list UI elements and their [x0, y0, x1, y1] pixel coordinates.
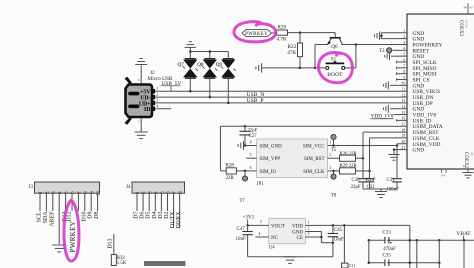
wire U4 NC pin4 stub	[256, 232, 269, 237]
annotation pink circle PWRKEY top	[234, 22, 276, 42]
label J2	[150, 70, 155, 76]
wire SIM_VCC row	[328, 144, 399, 147]
svg-text:R29 22R: R29 22R	[340, 164, 358, 169]
svg-text:PWRKEY: PWRKEY	[245, 31, 268, 37]
svg-text:3: 3	[156, 99, 158, 103]
wire pin6 SPI stub	[397, 61, 408, 64]
wire pin14 GND stub	[390, 108, 407, 110]
svg-text:SIM_VPP: SIM_VPP	[260, 157, 281, 162]
wire J2 shield top	[138, 66, 141, 84]
svg-text:T8: T8	[331, 193, 337, 198]
resistor R20	[277, 25, 288, 43]
capacitor C27	[240, 126, 258, 145]
svg-text:D8: D8	[94, 211, 100, 218]
component U4 box	[269, 218, 306, 244]
svg-text:Q6: Q6	[331, 44, 338, 50]
wire SIM_CLK pin3	[328, 170, 340, 173]
resistor R29	[340, 164, 358, 174]
ground connector bottom pin	[463, 173, 474, 178]
wire pin16 USB_ID stub	[397, 119, 408, 122]
wire PWRKEY to R20	[272, 32, 277, 34]
wire bottom rail left segment	[368, 261, 385, 264]
ground J2 bottom	[135, 132, 148, 139]
wire pin9 SPI stub	[397, 78, 408, 81]
wire U4 VOUT pin5	[248, 220, 269, 225]
capacitor C30	[351, 158, 376, 190]
capacitor C45	[328, 225, 344, 242]
U4 pin texts	[271, 224, 303, 241]
svg-text:4: 4	[250, 141, 252, 145]
svg-text:C30: C30	[352, 178, 361, 183]
wire pin10 GND stub	[390, 84, 407, 86]
wire pin7 SPI stub	[397, 66, 408, 69]
svg-text:J4: J4	[126, 185, 131, 190]
net label VBAT	[457, 231, 472, 240]
svg-text:8 4: 8 4	[441, 174, 445, 178]
svg-text:6: 6	[250, 166, 252, 170]
labels J4 pins	[134, 211, 183, 229]
svg-text:3: 3	[308, 232, 310, 236]
wire USB_N line	[152, 96, 407, 98]
wire SIM cap rail	[363, 188, 397, 190]
svg-text:BOOT: BOOT	[327, 72, 343, 78]
wire SIM_IO pin6	[236, 170, 256, 173]
wire pin2 GND stub	[381, 38, 407, 40]
svg-text:46: 46	[463, 6, 467, 10]
svg-text:T7: T7	[240, 199, 246, 204]
component U11 box	[342, 263, 356, 268]
wire U4 gnd route	[321, 241, 334, 256]
wire VBAT rail left segment	[368, 239, 385, 242]
svg-text:Q8: Q8	[197, 62, 204, 68]
svg-text:3: 3	[329, 166, 331, 170]
svg-text:U4: U4	[269, 246, 275, 251]
connector pin numbers 1-21	[401, 28, 405, 150]
svg-text:C27: C27	[249, 134, 258, 139]
svg-text:NC: NC	[271, 236, 279, 241]
JP1 pin numbers	[250, 141, 332, 170]
label COEX3 rotated	[458, 20, 469, 37]
wire Q7 to USB_VBUS	[189, 78, 192, 92]
capacitor C33	[383, 231, 396, 252]
svg-text:10uF: 10uF	[236, 237, 247, 242]
wires J4 pins	[137, 193, 180, 228]
port PWRKEY	[242, 30, 272, 37]
wire Q6 emitter	[314, 45, 328, 70]
connector J2 micro USB body	[125, 77, 156, 125]
svg-text:U11: U11	[349, 264, 355, 268]
wire Q8 to USB_N	[209, 78, 212, 98]
svg-text:SIM_VCC: SIM_VCC	[303, 144, 325, 149]
svg-text:R26 22R: R26 22R	[340, 152, 358, 157]
wire pin5 GND stub	[391, 55, 407, 57]
wire VDD to VBAT rail	[409, 225, 411, 268]
svg-text:2: 2	[308, 227, 310, 231]
svg-text:D5: D5	[146, 211, 152, 218]
ground pin21	[388, 150, 399, 161]
svg-text:SDA: SDA	[43, 211, 49, 224]
JP1 pin texts left	[260, 144, 283, 174]
ground U4	[283, 257, 296, 264]
wire R20 to Q6 base	[288, 31, 336, 34]
capacitor C31	[387, 146, 402, 193]
wire USB_P line	[152, 102, 407, 104]
transistor Q6	[327, 33, 342, 50]
svg-text:2: 2	[156, 93, 158, 97]
resistor R28	[226, 163, 237, 181]
wire U11 feed	[343, 225, 345, 263]
wire VBAT rail right	[387, 239, 474, 242]
svg-text:ID: ID	[144, 107, 150, 113]
wire TVS top rail	[189, 50, 228, 58]
svg-text:VOUT: VOUT	[271, 224, 285, 229]
net label VDD_1V8	[371, 114, 408, 120]
svg-text:D4: D4	[152, 211, 158, 218]
test point T2	[379, 48, 407, 54]
wire Q9 to USB_P	[227, 78, 230, 104]
svg-text:R20: R20	[278, 25, 287, 31]
svg-text:44: 44	[463, 164, 467, 168]
wire U4 GND pin2	[305, 232, 322, 243]
wires J3 pins	[40, 193, 98, 244]
svg-text:T2: T2	[379, 49, 385, 54]
diode Q7 TVS	[178, 59, 198, 78]
wire USIM_VDD pin20	[397, 144, 407, 146]
svg-text:100nF: 100nF	[387, 188, 400, 193]
svg-text:1: 1	[308, 220, 310, 224]
svg-text:470uF: 470uF	[383, 247, 396, 252]
svg-text:6: 6	[138, 78, 140, 82]
resistor R32	[111, 255, 126, 266]
switch S1 BOOT	[326, 56, 345, 78]
svg-text:PWRKEY: PWRKEY	[69, 221, 77, 252]
diode Q8 TVS	[197, 59, 217, 78]
wire U4 CE pin3	[305, 236, 321, 238]
annotation pink circle PWRKEY J3	[64, 201, 79, 262]
svg-text:5: 5	[250, 153, 252, 157]
svg-text:10uF: 10uF	[334, 238, 345, 243]
ground SIM_GND	[238, 141, 243, 150]
wire POWERKEY pin3	[342, 43, 408, 45]
wire bottom rail right	[387, 261, 441, 264]
svg-text:SIM_GND: SIM_GND	[260, 144, 283, 149]
svg-text:C31: C31	[387, 178, 396, 183]
wire D13 net	[108, 234, 114, 255]
net label USB_P	[247, 98, 264, 104]
connector JP1 SIM box	[257, 139, 328, 178]
svg-text:USB_P: USB_P	[247, 98, 264, 104]
svg-text:5: 5	[138, 120, 140, 124]
svg-text:R28: R28	[226, 163, 235, 168]
ground J2 top	[135, 59, 147, 65]
net label USB_N	[247, 92, 265, 98]
connector top pin stub	[463, 3, 473, 14]
resistor R26	[340, 152, 358, 161]
svg-text:SIM_IO: SIM_IO	[260, 170, 277, 175]
JP1 pin texts right	[303, 144, 325, 174]
svg-text:AREF: AREF	[49, 211, 55, 227]
svg-text:C47: C47	[237, 227, 246, 232]
capacitor C35	[383, 253, 392, 266]
svg-text:D12: D12	[67, 211, 73, 221]
svg-text:5: 5	[260, 220, 262, 224]
wire BOOT to collector	[345, 45, 356, 68]
wire U4 VDD pin1	[305, 224, 410, 227]
diode Q9 TVS	[216, 59, 236, 78]
svg-text:10 16: 10 16	[465, 20, 469, 28]
wire SIM_RST pin2	[328, 157, 340, 159]
test point T7	[240, 171, 248, 204]
svg-text:SIM_RST: SIM_RST	[304, 157, 325, 162]
svg-text:Q9: Q9	[216, 62, 223, 68]
wire S1 ground rail	[262, 67, 326, 70]
connector bottom marks	[441, 169, 446, 178]
svg-text:C35: C35	[383, 253, 392, 258]
net label +3V3	[243, 216, 255, 227]
wire R29 to pin19	[356, 138, 408, 172]
ground S1 rail	[256, 63, 262, 73]
wire J2 shield bottom	[138, 119, 141, 133]
resistor R22	[287, 33, 302, 68]
ground pin14	[384, 105, 389, 113]
ground J3 pin4	[52, 245, 66, 252]
test point T8	[331, 171, 337, 199]
wire pin1 GND stub	[381, 32, 407, 34]
capacitor C32	[365, 171, 375, 190]
wire pins1-2 join	[380, 33, 383, 39]
wire USIM_DATA down to R28	[221, 126, 227, 171]
ground pins1-2	[375, 31, 382, 40]
wire Q6 collector to POWERKEY	[342, 43, 407, 46]
svg-text:22R: 22R	[226, 176, 235, 181]
ground TVS top	[185, 42, 196, 52]
svg-text:Q7: Q7	[178, 62, 185, 68]
svg-text:GND: GND	[292, 230, 303, 235]
labels J3 pins	[37, 211, 101, 253]
label U4	[269, 246, 275, 251]
svg-text:1: 1	[329, 141, 331, 145]
svg-text:45: 45	[469, 6, 473, 10]
svg-text:T5: T5	[331, 148, 337, 153]
svg-text:D10: D10	[81, 211, 87, 221]
svg-text:D0/RX: D0/RX	[176, 211, 182, 229]
wire SIM_VPP pin5 stub	[246, 157, 257, 159]
svg-text:+3V3: +3V3	[243, 216, 255, 221]
ground pin5	[385, 52, 390, 60]
capacitor C47	[236, 225, 253, 256]
svg-text:4.7K: 4.7K	[277, 37, 287, 43]
label COEX2 rotated	[463, 152, 474, 169]
svg-text:C45: C45	[334, 228, 343, 233]
wire gnd link vertical	[368, 240, 370, 263]
svg-text:SCL: SCL	[37, 211, 43, 222]
connector COEX main box	[407, 14, 474, 169]
svg-text:D13: D13	[108, 238, 114, 248]
svg-text:GND: GND	[413, 148, 425, 154]
svg-text:4: 4	[259, 232, 261, 236]
svg-text:42: 42	[470, 152, 474, 156]
connector bottom pin stub	[463, 164, 468, 173]
ground SIM caps	[375, 189, 387, 198]
svg-text:D2: D2	[164, 211, 170, 218]
svg-text:1.5K: 1.5K	[117, 261, 127, 266]
svg-text:C33: C33	[383, 231, 392, 236]
wire pin21 GND	[393, 148, 407, 151]
connector J3 header box	[29, 182, 102, 196]
svg-text:22pF: 22pF	[248, 129, 258, 134]
connector pin name labels	[413, 31, 443, 154]
J2 internal pads	[128, 92, 139, 108]
wire USIM_DATA	[221, 125, 408, 128]
svg-text:D9: D9	[88, 211, 94, 218]
wire U4 bottom rail	[248, 256, 333, 258]
svg-text:J3: J3	[29, 185, 34, 190]
label JP1	[257, 182, 265, 187]
wire USB ID stub	[152, 108, 171, 110]
svg-text:47K: 47K	[287, 50, 296, 56]
wire USB_VBUS line	[152, 90, 407, 92]
svg-text:SIM_CLK: SIM_CLK	[303, 170, 325, 175]
J2 pin texts	[139, 90, 151, 114]
wire branch verticals	[417, 240, 464, 268]
ground pin10	[384, 81, 389, 89]
U4 right pin numbers	[308, 220, 310, 236]
svg-text:JP1: JP1	[257, 182, 265, 187]
label Micro USB	[148, 76, 173, 82]
net label USB_5V	[161, 81, 182, 91]
svg-text:VDD: VDD	[292, 224, 303, 229]
svg-text:COEX3: COEX3	[458, 20, 463, 37]
svg-text:1: 1	[156, 87, 158, 91]
wire R26 to pin18	[356, 132, 408, 159]
wire pin8 SPI stub	[397, 72, 408, 75]
svg-text:4: 4	[156, 104, 158, 108]
annotation pink circle BOOT	[318, 53, 352, 83]
svg-text:D3: D3	[158, 211, 164, 218]
svg-text:CE: CE	[297, 236, 303, 241]
svg-text:S1: S1	[331, 56, 337, 62]
svg-text:R22: R22	[288, 44, 297, 50]
svg-text:2: 2	[329, 153, 331, 157]
svg-text:22pF: 22pF	[351, 185, 361, 190]
svg-text:D1/TX: D1/TX	[170, 211, 176, 228]
level shifter box edge	[144, 261, 186, 266]
J2 pin numbers	[156, 87, 158, 109]
test point T5	[331, 134, 337, 153]
svg-text:D6: D6	[140, 211, 146, 218]
svg-text:D7: D7	[134, 211, 140, 218]
connector J4 header box	[126, 182, 184, 194]
wire SIM_GND pin4	[244, 144, 257, 147]
